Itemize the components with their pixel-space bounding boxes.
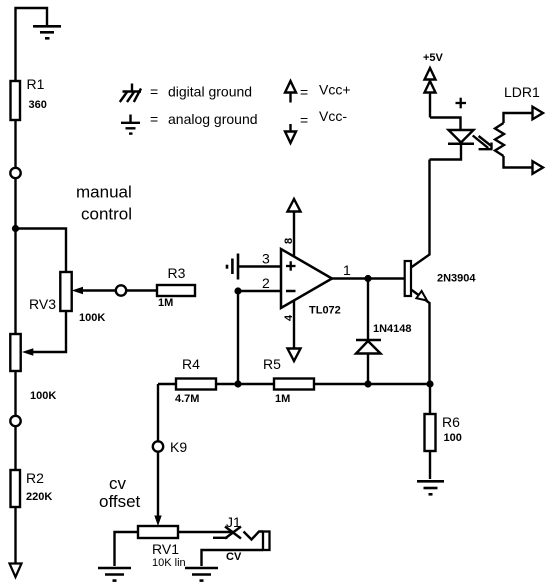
- diode 1N4148: [356, 339, 381, 342]
- svg-text:manual: manual: [76, 183, 132, 202]
- transistor Q1 base bar: [405, 261, 411, 296]
- svg-text:1: 1: [343, 262, 351, 278]
- svg-text:220K: 220K: [26, 491, 52, 503]
- op-amp + input mark: [286, 261, 296, 270]
- node (open circle, RV3 wiper): [116, 285, 126, 295]
- transistor emitter: [411, 290, 430, 385]
- svg-text:analog ground: analog ground: [168, 111, 258, 127]
- svg-text:Vcc-: Vcc-: [319, 108, 347, 124]
- junction (left rail to RV3 top): [12, 225, 19, 232]
- wire: R4 right to node: [216, 383, 238, 385]
- svg-text:360: 360: [29, 99, 47, 111]
- wire: pot to node circle: [14, 371, 16, 416]
- svg-text:TL072: TL072: [309, 305, 341, 317]
- wire: R6 to ground: [429, 451, 431, 479]
- wire: jack sleeve to ground: [202, 550, 264, 566]
- sideways analog ground (op-amp pin 3): [227, 254, 238, 280]
- svg-text:100K: 100K: [30, 390, 56, 402]
- svg-text:8: 8: [283, 238, 295, 244]
- jack J1 normalled contact: [213, 537, 228, 539]
- svg-text:R5: R5: [263, 356, 281, 372]
- legend: digital ground symbol: [120, 84, 141, 103]
- svg-text:10K lin: 10K lin: [152, 557, 186, 569]
- svg-text:LDR1: LDR1: [504, 84, 540, 100]
- junction (op-amp output node): [364, 275, 371, 282]
- ground (analog, top left): [33, 26, 61, 38]
- Vcc- arrow (bottom left): [10, 564, 22, 578]
- resistor R6: [425, 414, 436, 451]
- RV1 wiper arrow: [154, 516, 161, 527]
- wire: R2 to Vcc- arrow: [14, 507, 16, 563]
- svg-text:R1: R1: [27, 76, 45, 92]
- LDR top lead: [504, 113, 533, 123]
- LED (triangle): [449, 130, 474, 143]
- svg-text:2N3904: 2N3904: [437, 273, 476, 285]
- resistor R3: [157, 285, 195, 296]
- svg-text:3: 3: [262, 251, 270, 267]
- wire: output node down to diode: [367, 279, 369, 341]
- svg-text:CV: CV: [226, 551, 242, 563]
- svg-text:1M: 1M: [158, 297, 173, 309]
- potentiometer RV3: [60, 272, 71, 311]
- RV3 wiper arrow: [83, 289, 116, 291]
- LED cathode bar: [448, 142, 474, 145]
- potentiometer RV1: [138, 526, 178, 538]
- svg-text:4.7M: 4.7M: [175, 393, 199, 405]
- svg-text:=: =: [150, 84, 158, 100]
- svg-text:+5V: +5V: [423, 52, 444, 64]
- wire: top-left rail to digital ground stub: [16, 8, 48, 81]
- wire: RV1 left to ground: [115, 532, 139, 566]
- svg-text:K9: K9: [170, 439, 187, 455]
- wire: junction to RV3 top: [16, 229, 67, 273]
- wire: RV3 bottom to lower pot wiper: [33, 311, 66, 352]
- wire: R5 to emitter node: [314, 383, 430, 385]
- svg-text:1M: 1M: [275, 393, 290, 405]
- LED + polarity mark: [456, 98, 467, 109]
- wire: ground to pin 3: [238, 265, 281, 267]
- svg-text:R6: R6: [442, 414, 460, 430]
- +5V double arrow: [429, 93, 431, 118]
- wire: circle to junction: [14, 178, 16, 334]
- svg-text:RV1: RV1: [152, 541, 179, 557]
- jack J1 body: [263, 532, 270, 551]
- transistor emitter arrow: [416, 291, 427, 301]
- op-amp - input mark: [286, 290, 296, 293]
- LDR bottom lead: [504, 156, 533, 168]
- svg-text:offset: offset: [99, 492, 141, 511]
- junction (diode bottom node): [364, 380, 371, 387]
- legend: Vcc- arrow: [289, 124, 291, 132]
- pin 4 wire (V-): [293, 301, 295, 349]
- svg-text:control: control: [81, 205, 132, 224]
- LDR top arrowhead: [533, 107, 544, 120]
- jack J1 tip spring: [244, 532, 264, 540]
- jack J1 switch cross: [225, 527, 241, 539]
- potentiometer (lower, 100K): [10, 334, 20, 371]
- pin 1 wire (output): [332, 277, 368, 279]
- wire: node to R6: [429, 384, 431, 414]
- op-amp U1 TL072: [281, 249, 332, 308]
- svg-text:=: =: [300, 84, 308, 100]
- wire: pin 2: [238, 290, 281, 292]
- svg-text:R3: R3: [168, 265, 186, 281]
- wire: circle to R2: [14, 426, 16, 470]
- svg-text:4: 4: [283, 314, 295, 321]
- wire: node to R5: [238, 383, 274, 385]
- wire: circle to R3: [126, 289, 157, 291]
- ground (R6): [417, 481, 444, 494]
- wire: LED to collector: [430, 144, 462, 160]
- svg-text:100: 100: [444, 432, 462, 444]
- resistor R4: [176, 379, 216, 390]
- node (open circle, left rail lower): [10, 416, 20, 426]
- node K9 (open circle): [153, 441, 163, 451]
- legend: analog ground symbol: [121, 115, 140, 134]
- LDR bottom arrowhead: [533, 161, 544, 174]
- pin 4 Vcc- arrow: [288, 349, 301, 362]
- svg-text:100K: 100K: [79, 312, 105, 324]
- pin 8 wire (V+): [293, 212, 295, 257]
- pin 8 Vcc+ arrow: [288, 199, 301, 212]
- wire: RV1 right to jack: [178, 531, 234, 533]
- legend: Vcc+ arrow: [289, 93, 291, 103]
- svg-text:1N4148: 1N4148: [373, 323, 412, 335]
- lower pot wiper arrow: [22, 348, 33, 355]
- svg-text:=: =: [300, 112, 308, 128]
- wire: output node to transistor base: [368, 277, 405, 279]
- junction (R4/R5 node): [234, 380, 241, 387]
- wire: R1 to node circle: [14, 120, 16, 168]
- svg-text:R4: R4: [182, 356, 200, 372]
- LED light arrows: [473, 136, 493, 150]
- junction (emitter/R6 node): [426, 380, 433, 387]
- svg-text:Vcc+: Vcc+: [319, 82, 351, 98]
- LDR zigzag: [495, 123, 504, 156]
- wire: R4 left to K9: [158, 384, 176, 441]
- resistor R1: [11, 81, 21, 120]
- resistor R2: [11, 470, 21, 507]
- svg-text:RV3: RV3: [29, 296, 56, 312]
- svg-text:=: =: [150, 111, 158, 127]
- transistor collector: [411, 160, 430, 268]
- svg-text:digital ground: digital ground: [168, 84, 252, 100]
- wire: +5V to LED: [430, 118, 461, 131]
- wire: diode to node: [367, 354, 369, 385]
- wire: K9 to RV1 wiper: [157, 452, 159, 517]
- junction (pin2 / R3 node): [234, 287, 241, 294]
- ground (RV1): [98, 568, 131, 581]
- ground (jack): [185, 568, 218, 581]
- svg-text:R2: R2: [26, 470, 44, 486]
- svg-text:2: 2: [262, 275, 270, 291]
- wire: pin2 node down to R4/R5 node: [237, 291, 239, 384]
- svg-text:cv: cv: [109, 474, 127, 493]
- resistor R5: [274, 379, 314, 390]
- node (open circle, left rail upper): [10, 168, 20, 178]
